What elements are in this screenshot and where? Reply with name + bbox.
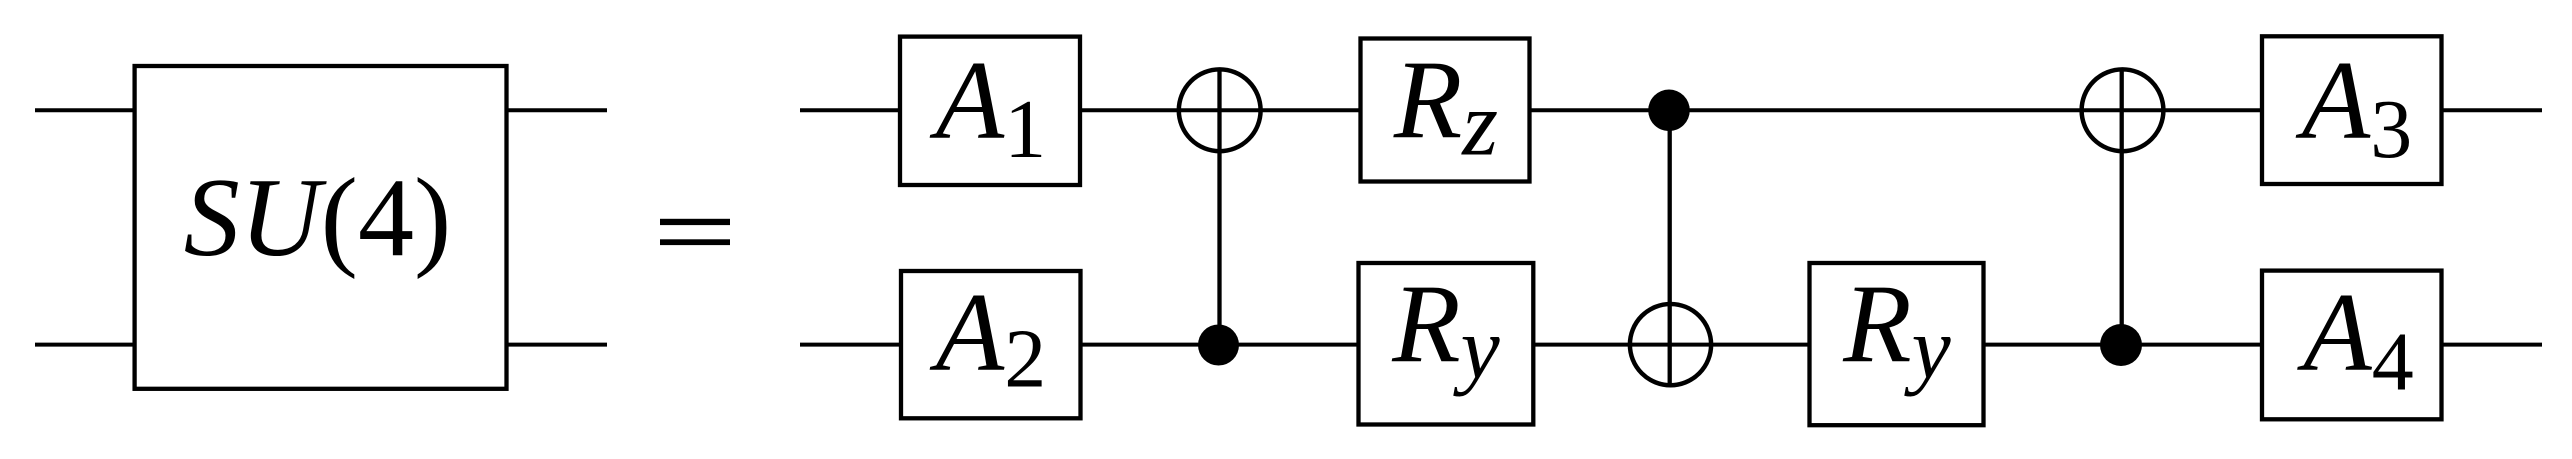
control dot CNOT3 bottom	[2100, 324, 2142, 366]
wire top qubit	[800, 108, 2542, 112]
wire bottom-left into SU(4)	[35, 343, 136, 347]
gate A4	[2262, 271, 2442, 420]
wire CNOT3 vertical	[2120, 70, 2124, 346]
cnot target CNOT2 bottom	[1630, 304, 1711, 385]
cnot target CNOT1 top	[1179, 69, 1261, 151]
wire bottom qubit	[800, 343, 2542, 347]
gate A2	[901, 271, 1081, 418]
wire CNOT2 vertical	[1668, 110, 1672, 385]
control dot CNOT1 bottom	[1198, 325, 1239, 366]
wire top-left into SU(4)	[35, 108, 136, 112]
control dot CNOT2 top	[1648, 90, 1690, 132]
gate Rz	[1361, 39, 1530, 182]
gate A1	[900, 37, 1080, 185]
gate Ry2	[1810, 263, 1984, 425]
box SU(4)	[135, 66, 507, 389]
wire CNOT1 vertical	[1217, 70, 1221, 345]
wire bottom-right of SU(4)	[505, 343, 607, 347]
cnot target CNOT3 top	[2082, 69, 2164, 151]
wire top-right of SU(4)	[505, 108, 607, 112]
svg-text:SU(4): SU(4)	[184, 156, 451, 280]
gate A3	[2262, 36, 2442, 184]
gate Ry1	[1359, 263, 1534, 425]
equals sign	[660, 219, 730, 245]
